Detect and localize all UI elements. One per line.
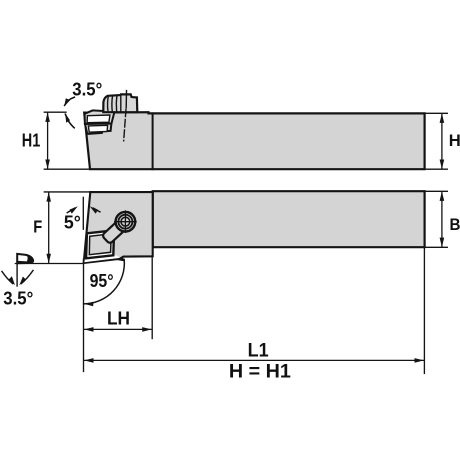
knob knurl line 2 <box>111 95 114 110</box>
L1 right arrowhead <box>415 358 425 363</box>
LH left arrowhead <box>84 327 94 332</box>
tip horizontal extension line <box>15 263 83 265</box>
screw head inner circle <box>121 217 130 226</box>
insert inner outline <box>89 234 111 255</box>
3.5 deg lower leader arrowhead <box>65 113 70 122</box>
head (top view) <box>84 192 153 263</box>
H1 top arrowhead <box>45 112 50 122</box>
svg-text:B: B <box>450 215 460 234</box>
LH dimension line <box>84 328 152 330</box>
wedge dark bottom band <box>16 261 27 264</box>
clamp finger (top view) <box>102 216 131 244</box>
LH right extension line <box>151 258 153 339</box>
pocket clearance strip (white) <box>84 255 119 262</box>
clamp upper piece white face <box>87 115 110 123</box>
H top extension line <box>426 112 447 114</box>
screw head middle circle <box>118 215 132 229</box>
B top arrowhead <box>440 191 445 201</box>
H bottom extension line <box>426 168 447 170</box>
F dimension line <box>48 193 50 263</box>
F top arrowhead <box>46 192 51 202</box>
3.5 deg left converge arrowhead <box>9 276 15 285</box>
3.5 deg left converge arc <box>2 272 13 284</box>
3.5 deg upper leader arc <box>65 97 75 105</box>
svg-text:95°: 95° <box>90 271 114 291</box>
clamp screw knob (knurled head) <box>103 94 137 112</box>
screw axis solid part <box>125 91 127 108</box>
screw axis dashed part <box>124 109 126 141</box>
clamp lower piece (side view) <box>85 124 111 134</box>
shank body (top view) <box>153 191 425 247</box>
H1 dimension line <box>47 113 49 169</box>
tip vertical extension line <box>83 259 85 371</box>
5 deg left arrowhead <box>70 206 78 213</box>
H top arrowhead <box>440 113 445 123</box>
F top extension line <box>44 191 89 193</box>
insert outer outline <box>86 230 114 258</box>
5 deg right leader tail <box>94 208 100 212</box>
95 deg arc bottom arrowhead <box>84 302 93 307</box>
clamp upper piece (side view) <box>85 110 115 124</box>
L1 right extension line <box>423 248 425 373</box>
svg-text:H = H1: H = H1 <box>229 361 291 382</box>
3.5 deg extension line (upper view) <box>44 111 66 113</box>
screw head outer circle <box>116 212 136 232</box>
svg-text:3.5°: 3.5° <box>72 79 102 99</box>
B bottom arrowhead <box>440 238 445 248</box>
screw crosshair horizontal <box>115 221 136 223</box>
L1 left arrowhead <box>84 358 94 363</box>
3.5 deg right converge arrowhead <box>19 277 26 286</box>
knob knurl line 3 <box>115 95 118 111</box>
H1 bottom extension line <box>44 168 88 170</box>
knob step edge <box>120 95 122 111</box>
H dimension line <box>441 114 443 169</box>
LH right arrowhead <box>142 327 152 332</box>
95 deg arc top arrowhead <box>115 258 124 262</box>
F bottom arrowhead <box>46 254 51 264</box>
svg-text:5°: 5° <box>64 213 81 233</box>
svg-text:H1: H1 <box>22 130 41 150</box>
svg-text:LH: LH <box>107 309 130 329</box>
knob knurl line 1 <box>107 96 110 110</box>
svg-text:L1: L1 <box>248 341 269 362</box>
svg-text:F: F <box>33 217 42 237</box>
B dimension line <box>441 192 443 247</box>
head/shank divider (side view) <box>152 113 154 169</box>
svg-text:3.5°: 3.5° <box>3 289 33 309</box>
5 deg left leader tail <box>67 208 74 212</box>
H1 bottom arrowhead <box>45 160 50 170</box>
B bottom extension line <box>426 246 447 248</box>
5 deg reference line <box>82 197 84 229</box>
3.5 deg upper leader arrowhead <box>64 98 70 106</box>
screw crosshair vertical <box>124 211 126 232</box>
3.5 deg lower leader arc <box>65 114 74 128</box>
shank body (side view) <box>84 112 424 169</box>
95 deg arc <box>84 260 125 304</box>
wedge dark right crescent <box>26 255 33 263</box>
3.5 deg right converge arc <box>21 271 33 284</box>
3.5 deg reference stub line <box>16 264 18 286</box>
svg-text:H: H <box>449 131 460 150</box>
5 deg right arrowhead <box>90 206 98 214</box>
H bottom arrowhead <box>440 160 445 170</box>
insert tip side detail (wedge) <box>17 254 33 263</box>
clamp lower piece white face <box>88 125 107 132</box>
B top extension line <box>426 190 447 192</box>
L1 dimension line <box>84 359 424 361</box>
